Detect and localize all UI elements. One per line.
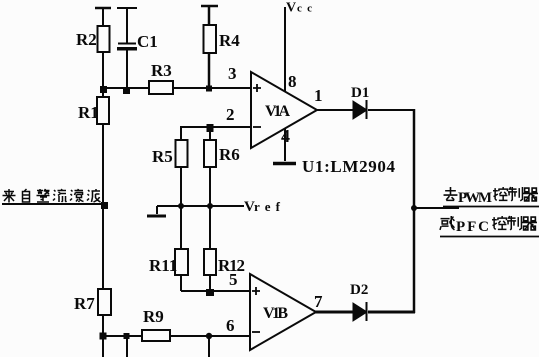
svg-text:2: 2	[226, 105, 235, 124]
svg-text:D1: D1	[351, 85, 369, 101]
svg-text:8: 8	[288, 72, 297, 91]
svg-text:1: 1	[314, 86, 323, 105]
svg-text:3: 3	[228, 64, 237, 83]
svg-text:R9: R9	[143, 307, 164, 326]
svg-text:V: V	[286, 1, 296, 16]
svg-text:5: 5	[229, 270, 238, 289]
svg-text:R11: R11	[149, 256, 177, 275]
svg-text:V1B: V1B	[263, 305, 288, 322]
svg-text:7: 7	[314, 292, 323, 311]
svg-text:R1: R1	[78, 103, 99, 122]
svg-text:PWM: PWM	[458, 190, 492, 206]
svg-text:D2: D2	[350, 282, 368, 298]
svg-text:U1:LM2904: U1:LM2904	[302, 157, 396, 176]
svg-text:C1: C1	[137, 32, 158, 51]
svg-text:ref: ref	[254, 199, 281, 214]
svg-text:R6: R6	[219, 145, 240, 164]
svg-text:V1A: V1A	[265, 103, 290, 120]
svg-text:R2: R2	[76, 30, 97, 49]
svg-text:R5: R5	[152, 147, 173, 166]
svg-text:4: 4	[281, 126, 290, 146]
svg-text:6: 6	[226, 316, 235, 335]
svg-text:R4: R4	[219, 31, 240, 50]
svg-text:PFC: PFC	[456, 219, 489, 235]
svg-text:R7: R7	[74, 294, 95, 313]
svg-text:R3: R3	[151, 61, 172, 80]
